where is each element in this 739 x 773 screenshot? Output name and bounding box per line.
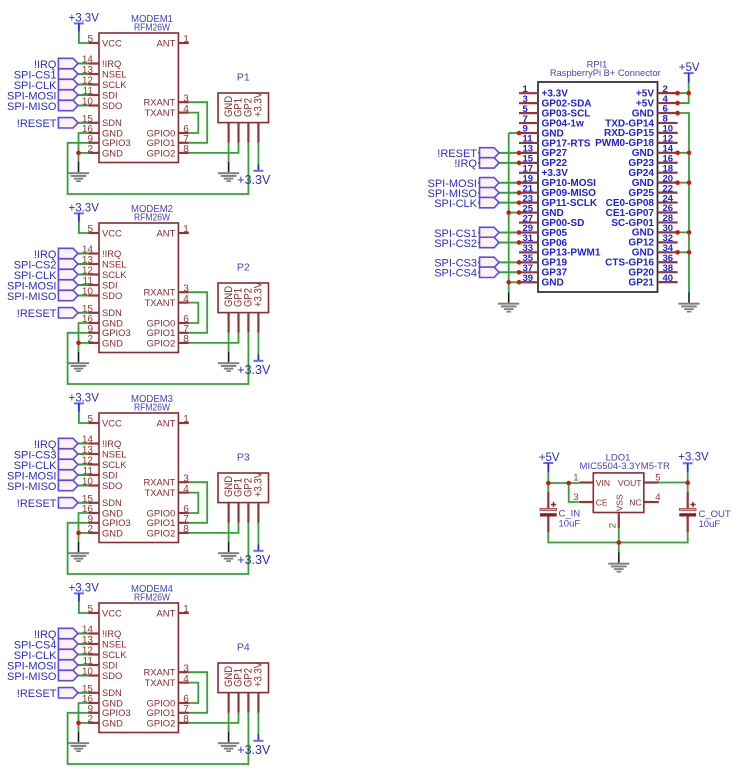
svg-text:GND: GND <box>102 717 123 728</box>
svg-text:13: 13 <box>82 445 94 456</box>
svg-text:SCLK: SCLK <box>102 79 127 90</box>
svg-text:1: 1 <box>183 604 189 615</box>
svg-text:2: 2 <box>87 714 93 725</box>
svg-text:+3.3V: +3.3V <box>253 472 265 497</box>
svg-text:1: 1 <box>573 473 578 484</box>
svg-text:SPI-CS2: SPI-CS2 <box>434 238 477 250</box>
svg-text:NSEL: NSEL <box>102 448 127 459</box>
svg-text:VOUT: VOUT <box>618 478 642 488</box>
svg-text:10: 10 <box>82 477 94 488</box>
svg-text:GPIO2: GPIO2 <box>147 527 176 538</box>
svg-text:2: 2 <box>87 334 93 345</box>
svg-text:+3.3V: +3.3V <box>253 282 265 307</box>
svg-text:NSEL: NSEL <box>102 68 127 79</box>
svg-text:14: 14 <box>82 625 94 636</box>
svg-text:RXANT: RXANT <box>144 477 176 488</box>
svg-text:GPIO2: GPIO2 <box>147 337 176 348</box>
svg-text:12: 12 <box>82 76 94 87</box>
svg-text:2: 2 <box>87 524 93 535</box>
svg-text:10: 10 <box>82 287 94 298</box>
svg-text:GPIO2: GPIO2 <box>147 147 176 158</box>
svg-text:NSEL: NSEL <box>102 638 127 649</box>
svg-text:14: 14 <box>82 55 94 66</box>
svg-text:2: 2 <box>87 144 93 155</box>
svg-text:TXANT: TXANT <box>145 677 176 688</box>
svg-text:SDO: SDO <box>102 480 122 491</box>
svg-text:14: 14 <box>82 245 94 256</box>
svg-text:5: 5 <box>87 604 93 615</box>
svg-text:1: 1 <box>183 224 189 235</box>
svg-text:SCLK: SCLK <box>102 269 127 280</box>
svg-text:!IRQ: !IRQ <box>454 158 477 170</box>
svg-text:SDI: SDI <box>102 279 118 290</box>
svg-text:12: 12 <box>82 646 94 657</box>
svg-text:!IRQ: !IRQ <box>102 58 121 69</box>
svg-text:SPI-CS4: SPI-CS4 <box>434 268 477 280</box>
svg-text:11: 11 <box>83 656 94 667</box>
svg-text:VCC: VCC <box>102 227 122 238</box>
svg-text:10: 10 <box>82 97 94 108</box>
svg-text:P1: P1 <box>237 72 250 84</box>
svg-text:GND: GND <box>102 527 123 538</box>
svg-text:!RESET: !RESET <box>17 688 57 700</box>
svg-text:SDI: SDI <box>102 89 118 100</box>
svg-text:GND: GND <box>102 337 123 348</box>
svg-text:13: 13 <box>82 635 94 646</box>
svg-text:RaspberryPi B+ Connector: RaspberryPi B+ Connector <box>550 68 661 78</box>
svg-text:40: 40 <box>663 273 674 284</box>
svg-text:1: 1 <box>183 34 189 45</box>
svg-text:2: 2 <box>607 523 618 528</box>
svg-text:+3.3V: +3.3V <box>678 452 709 464</box>
svg-text:+3.3V: +3.3V <box>237 553 271 567</box>
svg-text:MIC5504-3.3YM5-TR: MIC5504-3.3YM5-TR <box>580 461 670 472</box>
svg-text:+3.3V: +3.3V <box>237 743 271 757</box>
svg-text:12: 12 <box>82 266 94 277</box>
svg-text:!RESET: !RESET <box>17 308 57 320</box>
svg-text:P2: P2 <box>237 262 250 274</box>
svg-text:!IRQ: !IRQ <box>102 438 121 449</box>
svg-text:10: 10 <box>82 667 94 678</box>
svg-text:3: 3 <box>183 93 189 104</box>
svg-text:RFM26W: RFM26W <box>134 592 170 604</box>
svg-text:SDO: SDO <box>102 290 122 301</box>
svg-text:10uF: 10uF <box>699 519 721 530</box>
svg-text:ANT: ANT <box>157 227 176 238</box>
svg-text:!RESET: !RESET <box>17 498 57 510</box>
svg-text:!RESET: !RESET <box>17 118 57 130</box>
svg-text:1: 1 <box>183 414 189 425</box>
svg-text:VSS: VSS <box>614 494 624 511</box>
svg-text:3: 3 <box>573 492 578 503</box>
svg-text:12: 12 <box>82 456 94 467</box>
svg-text:SDI: SDI <box>102 469 118 480</box>
svg-text:SPI-CLK: SPI-CLK <box>434 198 477 210</box>
svg-text:GP21: GP21 <box>628 277 654 288</box>
svg-text:3: 3 <box>183 473 189 484</box>
svg-text:!IRQ: !IRQ <box>102 248 121 259</box>
svg-text:3: 3 <box>183 663 189 674</box>
svg-text:RFM26W: RFM26W <box>134 22 170 34</box>
svg-text:13: 13 <box>82 65 94 76</box>
svg-text:VCC: VCC <box>102 37 122 48</box>
svg-text:NC: NC <box>629 498 641 508</box>
svg-text:TXANT: TXANT <box>145 297 176 308</box>
svg-text:+5V: +5V <box>679 62 700 74</box>
svg-text:+3.3V: +3.3V <box>253 662 265 687</box>
svg-text:ANT: ANT <box>157 37 176 48</box>
svg-text:13: 13 <box>82 255 94 266</box>
svg-text:3: 3 <box>183 283 189 294</box>
svg-text:5: 5 <box>87 224 93 235</box>
svg-text:NSEL: NSEL <box>102 258 127 269</box>
svg-text:VCC: VCC <box>102 417 122 428</box>
svg-text:RFM26W: RFM26W <box>134 212 170 224</box>
svg-text:4: 4 <box>183 484 189 495</box>
svg-text:+3.3V: +3.3V <box>237 173 271 187</box>
svg-text:10uF: 10uF <box>559 519 581 530</box>
svg-text:GND: GND <box>102 147 123 158</box>
svg-text:SCLK: SCLK <box>102 459 127 470</box>
svg-text:5: 5 <box>655 473 660 484</box>
svg-text:8: 8 <box>183 714 189 725</box>
svg-text:4: 4 <box>183 104 189 115</box>
svg-text:VCC: VCC <box>102 607 122 618</box>
svg-text:SDI: SDI <box>102 659 118 670</box>
svg-text:TXANT: TXANT <box>145 487 176 498</box>
svg-text:+3.3V: +3.3V <box>253 92 265 117</box>
svg-text:VIN: VIN <box>596 478 610 488</box>
svg-text:GPIO2: GPIO2 <box>147 717 176 728</box>
svg-text:4: 4 <box>183 294 189 305</box>
svg-text:SDO: SDO <box>102 100 122 111</box>
svg-text:ANT: ANT <box>157 607 176 618</box>
svg-text:SPI-MISO: SPI-MISO <box>7 291 57 303</box>
svg-text:+3.3V: +3.3V <box>237 363 271 377</box>
svg-text:8: 8 <box>183 144 189 155</box>
svg-text:39: 39 <box>523 273 534 284</box>
svg-text:SPI-MISO: SPI-MISO <box>7 671 57 683</box>
svg-text:!IRQ: !IRQ <box>102 628 121 639</box>
svg-text:11: 11 <box>83 466 94 477</box>
svg-text:ANT: ANT <box>157 417 176 428</box>
svg-text:14: 14 <box>82 435 94 446</box>
svg-text:P3: P3 <box>237 452 250 464</box>
svg-text:SPI-MISO: SPI-MISO <box>7 101 57 113</box>
svg-text:GND: GND <box>542 278 564 289</box>
svg-text:11: 11 <box>83 86 94 97</box>
svg-text:8: 8 <box>183 334 189 345</box>
svg-text:RFM26W: RFM26W <box>134 402 170 414</box>
svg-text:RXANT: RXANT <box>144 287 176 298</box>
svg-text:4: 4 <box>183 674 189 685</box>
svg-text:5: 5 <box>87 34 93 45</box>
svg-text:CE: CE <box>596 498 608 508</box>
svg-text:SCLK: SCLK <box>102 649 127 660</box>
svg-text:8: 8 <box>183 524 189 535</box>
svg-text:SDO: SDO <box>102 670 122 681</box>
svg-text:5: 5 <box>87 414 93 425</box>
svg-text:TXANT: TXANT <box>145 107 176 118</box>
svg-text:RXANT: RXANT <box>144 667 176 678</box>
svg-text:P4: P4 <box>237 642 250 654</box>
svg-text:4: 4 <box>655 492 660 503</box>
svg-text:11: 11 <box>83 276 94 287</box>
svg-text:RXANT: RXANT <box>144 97 176 108</box>
svg-text:SPI-MISO: SPI-MISO <box>7 481 57 493</box>
